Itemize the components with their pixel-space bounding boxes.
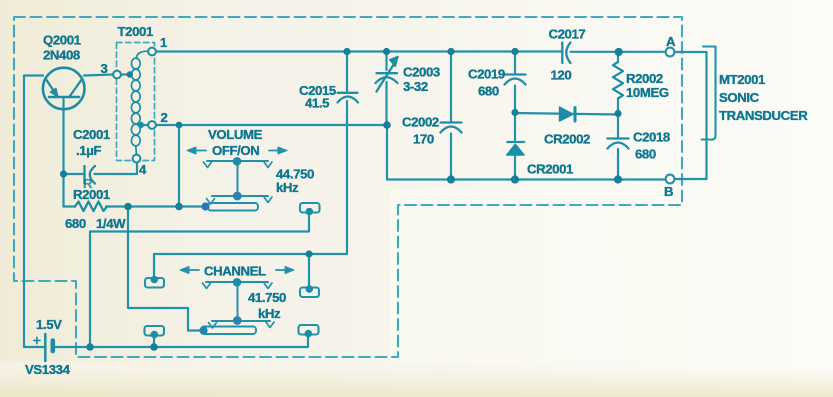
diode CR2001 xyxy=(507,141,524,143)
wire coil tap to pin2 xyxy=(141,124,148,126)
wire bottom rail of output tank xyxy=(387,125,666,180)
junction top rail C2015 xyxy=(343,48,350,55)
junction battery rail x154 xyxy=(150,343,158,351)
node B xyxy=(666,175,675,184)
channel rod pivot dot xyxy=(199,326,207,334)
junction R2002 bottom xyxy=(614,110,621,117)
channel contact upper-left xyxy=(145,278,164,288)
wire channel feed: contact riser, across, up to C2015 bottom xyxy=(154,101,347,278)
wire C2019 stems xyxy=(514,52,516,74)
svg-text:2: 2 xyxy=(161,110,168,125)
wire battery rail xyxy=(24,346,44,348)
volume stationary contact xyxy=(300,203,320,213)
svg-text:C2003: C2003 xyxy=(403,65,440,80)
wire C2015 top stem xyxy=(346,52,348,92)
svg-text:CR2001: CR2001 xyxy=(527,162,573,177)
wire pin2 rail to C2003 bottom xyxy=(156,124,387,126)
junction pin2 rail right / C2003 bottom xyxy=(383,121,391,129)
svg-text:VS1334: VS1334 xyxy=(25,362,71,377)
svg-text:41.5: 41.5 xyxy=(305,96,329,111)
svg-text:.1µF: .1µF xyxy=(76,143,101,158)
wire pin3 to coil tap xyxy=(121,73,130,75)
junction channel cross rail xyxy=(305,250,312,257)
svg-text:1/4W: 1/4W xyxy=(96,216,126,231)
transformer tap dot lower xyxy=(138,122,144,128)
channel contact lower-left xyxy=(145,326,165,336)
channel switch lower contact bar xyxy=(212,320,270,322)
enclosure dashed outline xyxy=(14,17,682,357)
volume arrow left xyxy=(194,150,206,152)
svg-text:1.5V: 1.5V xyxy=(36,317,62,332)
channel stem dots xyxy=(233,278,242,287)
volume arrow right xyxy=(269,150,280,152)
svg-text:120: 120 xyxy=(551,68,572,83)
transducer MT2001 bracket xyxy=(702,47,716,140)
junction pin2 rail left xyxy=(176,122,183,129)
svg-text:R2002: R2002 xyxy=(626,71,663,86)
svg-text:1: 1 xyxy=(160,35,167,50)
junction C2001/base xyxy=(60,170,67,177)
svg-text:680: 680 xyxy=(65,216,86,231)
transformer T2001 dashed box xyxy=(117,43,155,161)
battery VS1334 xyxy=(44,334,47,361)
junction top rail C2003 xyxy=(383,48,390,55)
pin 2 terminal xyxy=(148,121,156,129)
svg-text:2N408: 2N408 xyxy=(43,48,80,63)
capacitor C2018 xyxy=(608,137,629,139)
capacitor C2015 xyxy=(338,92,358,94)
junction bottom rail CR2001 xyxy=(511,175,519,183)
volume rod pivot dot xyxy=(201,202,209,210)
svg-text:170: 170 xyxy=(413,132,434,147)
junction bottom rail C2002 xyxy=(447,175,455,183)
channel arrow right xyxy=(276,269,287,271)
svg-text:CR2002: CR2002 xyxy=(544,132,590,147)
junction top rail R2002 xyxy=(615,48,623,56)
wire CR2002 run xyxy=(515,113,618,115)
wire C2001 right to pin 4 xyxy=(95,163,138,174)
svg-text:kHz: kHz xyxy=(276,180,299,195)
capacitor C2001 xyxy=(83,166,85,184)
svg-text:4: 4 xyxy=(139,162,147,177)
variable capacitor C2003 xyxy=(377,72,398,74)
svg-text:C2019: C2019 xyxy=(468,67,505,82)
wire riser pin2-rail to volume rod rail xyxy=(178,125,180,207)
node A xyxy=(666,48,675,57)
capacitor C2019 xyxy=(505,73,526,75)
channel arrow left xyxy=(187,269,199,271)
svg-text:C2017: C2017 xyxy=(549,27,586,42)
pin 3 terminal xyxy=(113,71,121,79)
junction R2001 right xyxy=(124,203,132,211)
svg-text:C2002: C2002 xyxy=(402,115,439,130)
wire node A to transducer and down to node B xyxy=(675,52,707,179)
wire channel rod feed from R2001 junction xyxy=(128,207,200,331)
svg-text:41.750: 41.750 xyxy=(248,290,286,305)
channel switch upper contact bar xyxy=(206,281,268,283)
svg-text:3-32: 3-32 xyxy=(403,79,428,94)
wire C2001 left xyxy=(64,173,84,175)
svg-text:C2018: C2018 xyxy=(633,130,670,145)
junction CR2001 top xyxy=(511,109,518,116)
svg-text:SONIC: SONIC xyxy=(719,90,760,105)
resistor R2001 xyxy=(75,202,107,212)
wire CR2001 stems xyxy=(514,113,516,141)
svg-text:R2001: R2001 xyxy=(73,187,110,202)
junction bottom rail C2018 xyxy=(614,175,622,183)
wire collector to pin 3 xyxy=(84,75,113,76)
wire emitter run: transistor left down to battery xyxy=(24,76,43,348)
wire volume contact down and across to battery rail xyxy=(90,213,309,347)
junction battery rail x90 xyxy=(86,343,94,351)
pin 4 terminal xyxy=(133,155,141,163)
wire channel upper-right contact riser xyxy=(308,254,310,288)
transistor Q2001 xyxy=(43,68,85,110)
svg-text:CHANNEL: CHANNEL xyxy=(204,264,266,279)
svg-text:OFF/ON: OFF/ON xyxy=(212,143,259,158)
wire C2003 stems xyxy=(385,52,387,71)
wire C2002 stems xyxy=(450,52,452,122)
svg-text:680: 680 xyxy=(635,147,656,162)
svg-text:10MEG: 10MEG xyxy=(626,85,669,100)
channel contact lower-right xyxy=(299,325,319,335)
svg-text:B: B xyxy=(664,184,673,199)
svg-text:T2001: T2001 xyxy=(118,24,153,39)
channel resonator rod xyxy=(201,327,256,335)
wire C2018 stems xyxy=(617,114,619,138)
pin 1 terminal xyxy=(148,48,156,56)
wire base lead down to R2001 xyxy=(62,99,64,207)
svg-text:A: A xyxy=(666,34,676,49)
resistor R2002 xyxy=(613,62,623,99)
junction top rail C2002 xyxy=(447,48,454,55)
svg-text:VOLUME: VOLUME xyxy=(208,127,263,142)
volume switch upper contact bar xyxy=(207,160,268,162)
transformer tap dot upper xyxy=(127,71,133,77)
wire channel lower-left contact stem xyxy=(153,335,155,347)
volume stem dots xyxy=(233,157,242,166)
capacitor C2002 xyxy=(441,121,462,123)
svg-text:kHz: kHz xyxy=(258,306,281,321)
volume resonator rod xyxy=(208,203,258,211)
junction top rail C2019 xyxy=(511,48,518,55)
channel switch stem xyxy=(237,282,239,321)
wire top rail C2017 to node A xyxy=(571,51,666,53)
svg-text:TRANSDUCER: TRANSDUCER xyxy=(719,108,808,123)
junction volume rail riser xyxy=(175,203,183,211)
capacitor C2017 xyxy=(561,43,563,64)
wire R2002 stems xyxy=(617,52,619,63)
svg-text:680: 680 xyxy=(478,84,499,99)
diode CR2002 xyxy=(560,107,574,121)
transformer T2001 coil xyxy=(131,51,148,154)
svg-text:Q2001: Q2001 xyxy=(43,33,81,48)
volume switch lower contact bar xyxy=(212,195,268,197)
channel contact upper-right xyxy=(300,288,319,298)
volume switch stem xyxy=(237,161,239,196)
svg-text:3: 3 xyxy=(101,61,108,76)
svg-text:MT2001: MT2001 xyxy=(719,72,765,87)
wire R2001 output run to volume rod xyxy=(64,205,76,207)
wire top rail pin1 to C2017 xyxy=(156,50,562,52)
svg-text:C2001: C2001 xyxy=(73,127,110,142)
